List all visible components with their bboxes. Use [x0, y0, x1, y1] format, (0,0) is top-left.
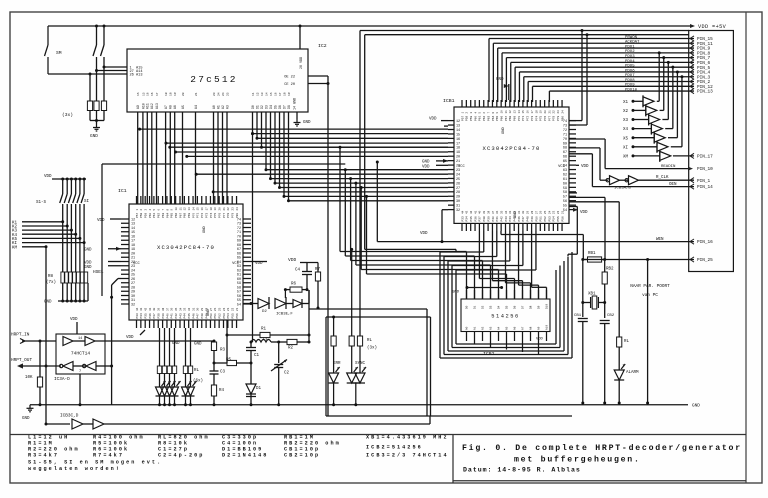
svg-text:34: 34	[505, 210, 508, 214]
crystal XB1	[581, 260, 606, 318]
svg-text:P34: P34	[466, 216, 469, 221]
svg-text:24: 24	[222, 92, 225, 96]
svg-text:P68: P68	[184, 213, 187, 218]
FPGA IC1 body	[118, 188, 243, 320]
svg-text:43: 43	[140, 307, 143, 311]
svg-text:PDO9: PDO9	[625, 84, 635, 88]
svg-text:GND: GND	[84, 249, 92, 253]
svg-text:28: 28	[531, 210, 534, 214]
svg-text:P52: P52	[218, 313, 221, 318]
svg-text:D6: D6	[514, 305, 517, 309]
GND rail	[30, 404, 700, 409]
IC1 VDD pin64 right	[251, 262, 267, 267]
svg-text:12: 12	[456, 120, 460, 124]
IC2 GND pin 14	[294, 98, 312, 126]
svg-text:66: 66	[563, 156, 567, 160]
resistor R3	[211, 340, 225, 365]
svg-text:36: 36	[171, 307, 174, 311]
svg-text:PDO8: PDO8	[625, 79, 635, 83]
svg-text:17: 17	[156, 92, 159, 96]
svg-text:35: 35	[175, 307, 178, 311]
svg-text:D4: D4	[269, 105, 273, 109]
svg-text:HRPT_IN: HRPT_IN	[11, 333, 30, 338]
svg-text:D7: D7	[282, 105, 286, 109]
IC1 bottom VDD label	[126, 330, 145, 340]
IC1 VDD pin12	[97, 219, 121, 223]
svg-text:GND: GND	[502, 126, 506, 134]
svg-text:16: 16	[201, 207, 204, 211]
wire A13	[48, 73, 127, 76]
svg-text:GND: GND	[203, 225, 207, 233]
svg-text:14: 14	[265, 92, 268, 96]
svg-text:SM: SM	[56, 50, 62, 56]
svg-text:Datum: 14-8-95 R. Alblas: Datum: 14-8-95 R. Alblas	[463, 467, 581, 474]
svg-text:PIN_1: PIN_1	[697, 179, 711, 184]
notes S1-S5	[28, 460, 162, 473]
IC3 74HCT14 box	[54, 334, 105, 382]
svg-text:P70: P70	[518, 116, 521, 121]
svg-text:22: 22	[557, 210, 560, 214]
svg-text:ICB3C,D: ICB3C,D	[60, 414, 79, 419]
wires ICB1 bottom to ICB2	[479, 231, 514, 299]
svg-text:PDO4: PDO4	[625, 60, 635, 64]
svg-text:P60: P60	[149, 213, 152, 218]
svg-text:D1: D1	[256, 387, 262, 391]
resistor R4	[211, 385, 224, 406]
resistor R2	[277, 339, 310, 350]
svg-text:22: 22	[227, 207, 230, 211]
svg-text:43: 43	[466, 210, 469, 214]
svg-text:21: 21	[223, 207, 226, 211]
svg-text:ICB2=514256: ICB2=514256	[366, 445, 423, 451]
ground under resistors	[90, 121, 100, 140]
svg-text:18: 18	[456, 147, 460, 151]
svg-text:41: 41	[474, 210, 477, 214]
svg-text:38: 38	[162, 307, 165, 311]
OEN to PIN_14	[592, 183, 713, 190]
svg-text:A8: A8	[169, 105, 173, 109]
svg-text:20: 20	[182, 92, 185, 96]
ICB2 bottom pin drops	[474, 341, 476, 345]
svg-text:C2: C2	[284, 372, 290, 376]
svg-text:HRPT_OUT: HRPT_OUT	[11, 358, 32, 363]
svg-text:A4: A4	[498, 326, 501, 330]
svg-text:16: 16	[151, 92, 154, 96]
svg-text:23: 23	[456, 169, 460, 173]
svg-text:P33: P33	[461, 216, 464, 221]
wires address loops around ICB2	[440, 252, 572, 358]
svg-text:12: 12	[184, 207, 187, 211]
svg-text:P47: P47	[522, 216, 525, 221]
IC3 pin7 to GND	[79, 374, 82, 406]
svg-text:P46: P46	[518, 216, 521, 221]
svg-text:C4: C4	[295, 269, 301, 273]
svg-text:VDD: VDD	[580, 211, 588, 215]
wire ICB1 pin67 oen	[569, 154, 592, 187]
svg-text:57: 57	[563, 196, 567, 200]
svg-text:22: 22	[553, 110, 556, 114]
svg-text:X5: X5	[623, 137, 629, 141]
svg-text:PRWON: PRWON	[625, 36, 638, 40]
svg-text:32: 32	[456, 209, 460, 213]
svg-text:P48: P48	[527, 216, 530, 221]
svg-text:PDO5: PDO5	[625, 65, 635, 69]
svg-text:R3: R3	[220, 349, 226, 353]
ICB2 bottom pins	[466, 332, 468, 342]
svg-text:A6: A6	[173, 105, 177, 109]
svg-text:A10: A10	[546, 325, 549, 330]
svg-text:P55: P55	[232, 313, 235, 318]
svg-text:63: 63	[563, 169, 567, 173]
svg-text:20: 20	[544, 110, 547, 114]
svg-text:P75: P75	[540, 116, 543, 121]
svg-text:24: 24	[236, 207, 239, 211]
svg-text:62: 62	[563, 173, 567, 177]
svg-text:56: 56	[563, 200, 567, 204]
svg-text:P62: P62	[483, 116, 486, 121]
resistor array (3x)	[62, 67, 107, 122]
IC2 left pin labels	[130, 67, 143, 78]
svg-text:67: 67	[563, 151, 567, 155]
svg-text:P37: P37	[153, 313, 156, 318]
svg-text:P44: P44	[184, 313, 187, 318]
svg-text:514256: 514256	[491, 314, 519, 320]
K pull-up rail dots	[61, 178, 64, 181]
svg-text:P34: P34	[140, 313, 143, 318]
svg-text:14: 14	[192, 207, 195, 211]
svg-text:D8: D8	[530, 305, 533, 309]
svg-text:P35: P35	[145, 313, 148, 318]
svg-text:P70: P70	[192, 213, 195, 218]
switches S1-S5,SI verticals	[60, 179, 63, 272]
svg-text:D4: D4	[498, 305, 501, 309]
svg-text:23: 23	[213, 92, 216, 96]
svg-text:GND: GND	[172, 342, 180, 346]
svg-text:19: 19	[288, 92, 291, 96]
svg-text:ICB3E,F: ICB3E,F	[276, 313, 293, 317]
svg-text:P56: P56	[561, 216, 564, 221]
svg-text:58: 58	[563, 191, 567, 195]
svg-text:P66: P66	[500, 116, 503, 121]
svg-text:WEN: WEN	[656, 238, 664, 242]
wire node down R1R2	[308, 290, 310, 342]
IC2 OE pin 22	[284, 76, 328, 80]
svg-text:P41: P41	[171, 313, 174, 318]
svg-text:P43: P43	[179, 313, 182, 318]
svg-text:D0: D0	[251, 105, 255, 109]
svg-text:P36: P36	[474, 216, 477, 221]
svg-text:R8: R8	[48, 275, 54, 279]
svg-text:P51: P51	[214, 313, 217, 318]
svg-text:29: 29	[201, 307, 204, 311]
svg-text:ICB1: ICB1	[443, 98, 455, 104]
svg-text:25: 25	[456, 178, 460, 182]
svg-text:R1: R1	[261, 328, 267, 332]
svg-text:25: 25	[218, 307, 221, 311]
svg-text:24: 24	[217, 92, 220, 96]
svg-text:18: 18	[535, 110, 538, 114]
svg-text:P72: P72	[201, 213, 204, 218]
wire ICB1 pin71 readin	[569, 139, 605, 169]
ICB1 left pins	[448, 120, 454, 122]
wire PIN_25 row	[583, 257, 713, 405]
svg-text:68: 68	[563, 147, 567, 151]
svg-text:P74: P74	[535, 116, 538, 121]
svg-text:VDD: VDD	[536, 338, 544, 342]
svg-text:R3=4k7: R3=4k7	[28, 452, 59, 458]
wires ICB1 bottom to address loops	[440, 231, 484, 252]
svg-text:10K: 10K	[25, 376, 33, 380]
svg-text:26: 26	[214, 307, 217, 311]
svg-text:21: 21	[236, 307, 239, 311]
svg-text:GND: GND	[84, 266, 92, 270]
svg-text:van PC: van PC	[642, 293, 658, 298]
svg-text:P55: P55	[557, 216, 560, 221]
svg-text:VDD: VDD	[422, 165, 430, 169]
wire ICB1 pin69 rclk	[569, 148, 600, 180]
svg-text:37: 37	[492, 210, 495, 214]
svg-text:GND: GND	[194, 343, 202, 347]
svg-text:ACKDAT: ACKDAT	[625, 41, 640, 45]
wire ICB1 pin56 to alarm	[569, 202, 619, 337]
svg-text:GND: GND	[22, 417, 30, 421]
svg-text:44: 44	[461, 210, 464, 214]
svg-text:PDO6: PDO6	[625, 69, 635, 73]
IC3 inverter C,D	[45, 362, 114, 371]
IC1 GND pin19	[84, 247, 121, 253]
resistor array R8 (7x)	[46, 272, 88, 285]
svg-text:CB2: CB2	[607, 314, 615, 318]
resistor 10K	[25, 341, 43, 406]
svg-text:weggelaten worden!: weggelaten worden!	[28, 466, 121, 472]
wire A14	[95, 69, 127, 72]
wire ICB1 pin58 stub	[569, 192, 577, 194]
ICB1 bottom pins	[461, 223, 463, 231]
svg-text:A7: A7	[164, 105, 168, 109]
svg-text:P51: P51	[540, 216, 543, 221]
svg-text:12: 12	[256, 92, 259, 96]
svg-text:X4: X4	[623, 128, 629, 132]
svg-text:71: 71	[563, 133, 567, 137]
svg-text:33: 33	[184, 307, 187, 311]
svg-text:P73: P73	[205, 213, 208, 218]
svg-text:23: 23	[227, 307, 230, 311]
wire ICB1 pin57 to RB1	[569, 197, 605, 259]
svg-text:P57: P57	[136, 213, 139, 218]
svg-text:met buffergeheugen.: met buffergeheugen.	[514, 455, 641, 465]
svg-text:A13: A13	[136, 74, 142, 78]
capacitor C4	[295, 268, 312, 291]
svg-text:11: 11	[179, 207, 182, 211]
connector entry arrows	[690, 36, 694, 41]
svg-text:28: 28	[205, 307, 208, 311]
svg-text:KM: KM	[12, 246, 18, 250]
IC3 inverter A,B	[63, 337, 214, 346]
wires IC2 address bus down to IC1	[137, 112, 139, 204]
wires PDO bus to ICB1 top	[489, 39, 694, 103]
svg-text:P72: P72	[527, 116, 530, 121]
IC2 CE pin 20	[284, 82, 329, 87]
resistor RB1	[581, 252, 604, 262]
svg-text:16: 16	[456, 138, 460, 142]
svg-text:D2: D2	[262, 310, 267, 314]
svg-text:18: 18	[210, 207, 213, 211]
svg-text:(3x): (3x)	[367, 346, 377, 351]
svg-text:42: 42	[145, 307, 148, 311]
X1-XM driver cascade	[623, 95, 654, 107]
K1-KM input wires	[12, 220, 64, 225]
svg-text:31: 31	[518, 210, 521, 214]
svg-text:RL: RL	[624, 340, 630, 344]
svg-text:GND: GND	[422, 161, 430, 165]
svg-text:D8: D8	[287, 105, 291, 109]
svg-text:30: 30	[197, 307, 200, 311]
svg-text:39: 39	[158, 307, 161, 311]
IC1 right pins	[243, 218, 251, 220]
svg-text:P49: P49	[531, 216, 534, 221]
svg-text:XI: XI	[623, 146, 629, 150]
svg-text:17: 17	[205, 207, 208, 211]
svg-text:CB2=10p: CB2=10p	[284, 452, 320, 458]
svg-text:34: 34	[179, 307, 182, 311]
HRPT_OUT output	[11, 358, 61, 369]
svg-text:23: 23	[557, 110, 560, 114]
svg-text:P56: P56	[236, 313, 239, 318]
svg-text:13: 13	[188, 207, 191, 211]
resistor network RL 6x	[157, 328, 161, 387]
label VDD C4	[288, 257, 307, 268]
svg-text:A8: A8	[530, 326, 533, 330]
LED array 6x	[156, 381, 166, 406]
svg-text:ALARM: ALARM	[626, 371, 639, 375]
svg-text:35: 35	[500, 210, 503, 214]
svg-text:RB1: RB1	[588, 252, 596, 256]
svg-text:44: 44	[136, 307, 139, 311]
svg-text:GND: GND	[303, 121, 311, 125]
svg-text:PDO2: PDO2	[625, 50, 635, 54]
svg-text:P61: P61	[153, 213, 156, 218]
svg-text:73: 73	[563, 124, 567, 128]
svg-text:40: 40	[479, 210, 482, 214]
wire D0 down to tuner	[251, 132, 254, 342]
wire WEN wrap	[360, 29, 713, 336]
VDD feed K pull-ups	[44, 175, 86, 179]
svg-text:74HCT14: 74HCT14	[71, 351, 91, 357]
svg-text:P65: P65	[171, 213, 174, 218]
svg-text:26: 26	[456, 182, 460, 186]
wire OE/CE down	[327, 76, 329, 416]
RAM ICB2 body	[452, 286, 550, 357]
resistor R5	[214, 359, 253, 366]
svg-text:14 GND: 14 GND	[294, 98, 298, 110]
svg-text:PIN_17: PIN_17	[697, 155, 713, 160]
svg-text:P58: P58	[140, 213, 143, 218]
ICB1 top pins	[461, 100, 463, 107]
svg-text:P77: P77	[548, 116, 551, 121]
svg-text:XC3042PC84-70: XC3042PC84-70	[483, 145, 541, 152]
svg-text:25: 25	[544, 210, 547, 214]
title block	[453, 435, 746, 484]
svg-text:VDD: VDD	[420, 232, 428, 236]
svg-text:P53: P53	[223, 313, 226, 318]
svg-text:21: 21	[548, 110, 551, 114]
IC1 top pins	[136, 196, 138, 204]
svg-text:RB2: RB2	[606, 268, 614, 272]
svg-text:20: 20	[456, 156, 460, 160]
svg-text:A6: A6	[514, 326, 517, 330]
varicap D1	[246, 384, 262, 406]
svg-text:A9: A9	[538, 326, 541, 330]
svg-text:31: 31	[456, 205, 460, 209]
EPROM IC2 27c512 body	[127, 43, 327, 112]
svg-text:P58: P58	[466, 116, 469, 121]
svg-text:15: 15	[456, 133, 460, 137]
svg-text:15: 15	[522, 110, 525, 114]
ICB1 VDD pin22	[422, 165, 448, 169]
svg-text:ERR: ERR	[333, 362, 341, 366]
switch S-a	[93, 25, 98, 71]
capacitor C1	[246, 342, 260, 384]
svg-text:30: 30	[522, 210, 525, 214]
svg-text:13: 13	[514, 110, 517, 114]
svg-text:P63: P63	[487, 116, 490, 121]
K GND bar	[44, 283, 88, 305]
IC1 bottom GND labels	[172, 342, 202, 347]
svg-text:R_CLK: R_CLK	[656, 176, 669, 180]
svg-text:XM: XM	[623, 156, 629, 160]
inverters ICB3C,D	[45, 414, 431, 430]
svg-text:D7: D7	[522, 305, 525, 309]
svg-text:61: 61	[563, 178, 567, 182]
svg-text:18: 18	[165, 92, 168, 96]
svg-text:C2=4p-20p: C2=4p-20p	[158, 452, 204, 458]
wires data bus to ICB1	[253, 133, 449, 135]
svg-text:A13: A13	[155, 103, 159, 109]
svg-text:33: 33	[509, 210, 512, 214]
svg-text:59: 59	[563, 187, 567, 191]
resistor R1	[226, 320, 311, 363]
svg-text:P52: P52	[544, 216, 547, 221]
svg-text:Fig. 0. De complete HRPT-decod: Fig. 0. De complete HRPT-decoder/generat…	[462, 443, 742, 453]
svg-text:GND: GND	[44, 301, 52, 305]
svg-text:ICB3=2/3 74HCT14: ICB3=2/3 74HCT14	[366, 453, 449, 459]
resistor RL alarm	[617, 337, 630, 370]
svg-text:17: 17	[531, 110, 534, 114]
svg-text:P59: P59	[145, 213, 148, 218]
svg-text:19: 19	[540, 110, 543, 114]
wires bus taps down to ICB2	[339, 146, 467, 299]
FPGA ICB1 body	[443, 98, 569, 223]
ICB1 VDD pin12	[429, 118, 448, 122]
svg-text:VDD: VDD	[255, 262, 263, 266]
svg-text:P67: P67	[179, 213, 182, 218]
VDD +5V rail	[48, 24, 695, 28]
svg-text:27: 27	[456, 187, 460, 191]
svg-text:P77: P77	[223, 213, 226, 218]
svg-text:P69: P69	[514, 116, 517, 121]
svg-text:P54: P54	[227, 313, 230, 318]
switch HSEL	[93, 270, 121, 405]
svg-text:P63: P63	[162, 213, 165, 218]
svg-text:22: 22	[456, 165, 460, 169]
svg-text:VDD: VDD	[126, 336, 134, 340]
svg-text:P59: P59	[470, 116, 473, 121]
switch S-b	[101, 25, 106, 68]
svg-text:PIN_16: PIN_16	[697, 240, 713, 245]
svg-text:15: 15	[137, 92, 140, 96]
svg-text:11: 11	[252, 92, 255, 96]
svg-text:P48: P48	[201, 313, 204, 318]
